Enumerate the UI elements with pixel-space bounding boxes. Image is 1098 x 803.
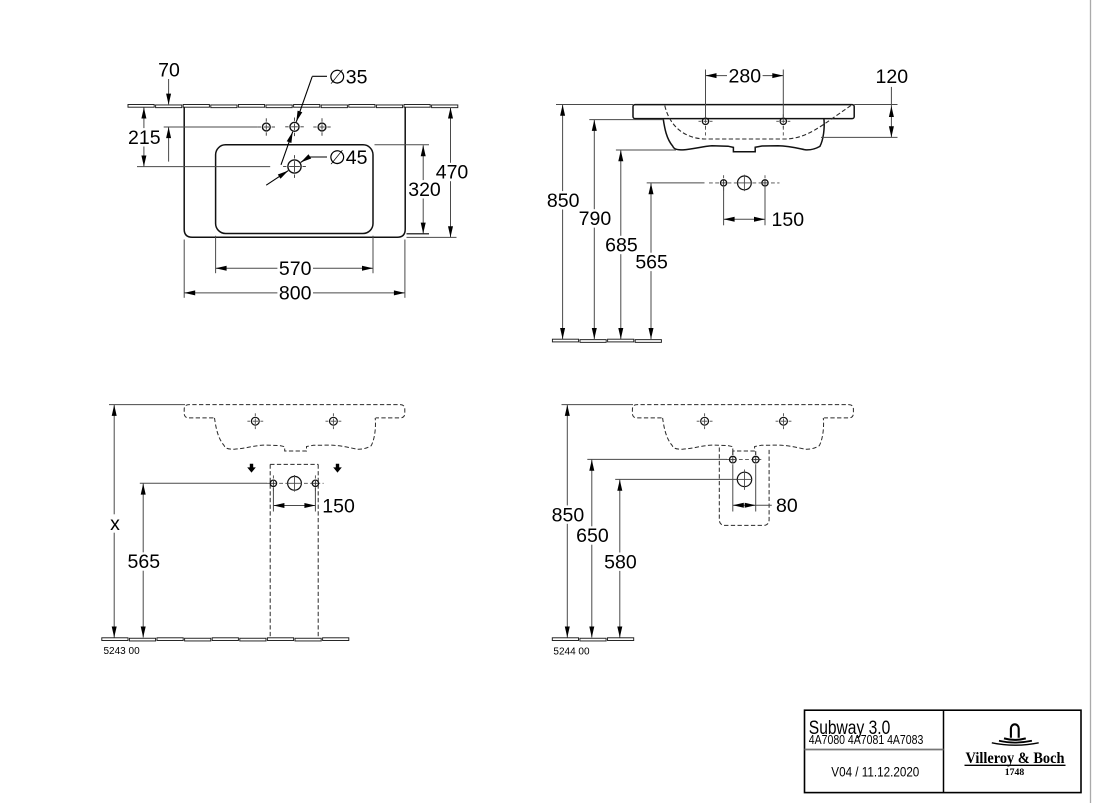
leader line dia35 [281,76,327,165]
hidden basin body (pedestal view) [663,418,824,451]
svg-text:685: 685 [605,235,638,257]
dimension 850 (pedestal view) [550,405,586,638]
dimension 650 [575,459,611,637]
label dia35 [329,67,368,89]
svg-text:x: x [110,513,120,535]
extension line 565 [647,182,705,184]
fixing hole right (pedestal view) [776,413,792,429]
fixing hole right (front) [776,114,790,135]
dimension 80 [733,464,798,517]
dimension 565 (wall view) [126,483,162,637]
dimension 470 [434,108,470,238]
dimension 790 [577,120,613,339]
dimension 215 [127,108,163,167]
tap zone hidden rectangle [270,464,318,637]
extension lines 800 [184,240,405,298]
dimension 800 [184,283,405,305]
basin outer outline (plan) [184,107,405,237]
svg-text:5244 00: 5244 00 [553,646,590,657]
svg-text:280: 280 [729,65,762,87]
drain center circle (wall view) [287,475,302,492]
svg-text:Villeroy & Boch: Villeroy & Boch [966,750,1065,767]
svg-text:850: 850 [552,504,585,526]
svg-text:120: 120 [876,66,909,88]
basin inner bowl outline (plan) [216,145,373,234]
fixing hole left (front) [699,114,713,135]
svg-text:V04 / 11.12.2020: V04 / 11.12.2020 [831,764,919,779]
svg-text:150: 150 [772,209,805,231]
dimension x [107,405,123,638]
anchor hole left (front) [721,175,727,190]
svg-text:850: 850 [547,190,580,212]
faucet holes centerline [164,126,258,128]
dimension 120 [876,66,909,137]
hidden bowl curve [665,106,851,139]
mount arrow left [247,464,256,473]
basin slab outline (front) [633,105,854,119]
logo fountain arch [1011,724,1019,738]
product number 5244 00 [553,646,590,657]
hidden basin slab (pedestal view) [632,405,853,418]
fixing hole right (wall view) [326,413,342,429]
extension line top (x dim) [109,404,185,406]
svg-text:800: 800 [279,283,312,305]
floor line (pedestal view) [552,638,633,641]
drain center circle (front) [737,175,752,191]
fixing hole left (pedestal view) [697,413,713,429]
tap hole right (pedestal) [752,456,759,463]
svg-text:5243 00: 5243 00 [104,646,141,657]
logo ripple 3 [992,743,1039,745]
anchor hole left (wall view) [270,475,276,491]
svg-text:70: 70 [158,59,180,81]
extension line outer bottom [407,236,457,238]
fixing hole left (wall view) [247,413,263,429]
svg-text:470: 470 [436,162,469,184]
dimension 280 [706,65,784,118]
svg-text:580: 580 [604,551,637,573]
dimension 570 [216,258,373,280]
logo ripple 2 [999,741,1032,743]
svg-text:650: 650 [576,525,609,547]
svg-text:80: 80 [776,495,798,517]
svg-text:565: 565 [128,551,161,573]
siphon cover hidden outline [719,448,769,526]
faucet hole left [258,118,275,135]
hidden basin body (wall view) [215,418,376,451]
product number 5243 00 [104,646,141,657]
anchor hole right (wall view) [312,475,318,491]
faucet hole right [313,118,330,135]
extension line top right (120) [854,104,897,106]
product name Subway 3.0 [809,718,891,739]
extension line 650 [587,458,727,460]
tap holes centerline (pedestal) [727,459,764,461]
wall line (plan view) [128,105,458,108]
svg-text:215: 215 [128,127,161,149]
dimension 580 [603,479,639,637]
extension line 120 bottom [821,136,898,138]
dimension 70 [158,59,180,161]
dimension 850 (front) [545,105,581,340]
extension lines 570 [216,236,373,273]
version and date [831,764,919,779]
svg-text:790: 790 [579,208,612,230]
mount arrow right [333,464,342,473]
basin body outline (front) [663,119,824,152]
anchor holes centerline (front) [709,182,780,184]
drain hole (pedestal) [737,470,752,490]
extension line 790 [589,119,663,121]
dimension 150 (front) [724,187,805,231]
overflow hole 45mm [283,155,306,178]
dimension 150 (wall view) [273,487,355,517]
svg-text:150: 150 [322,495,355,517]
svg-text:∅45: ∅45 [329,147,368,169]
extension line top left (850) [556,104,633,106]
title block frame [805,710,1082,792]
extension line through 45mm hole [137,166,270,168]
leader line dia45 [266,154,327,185]
svg-text:1748: 1748 [1005,768,1025,778]
extension line 565 (wall view) [140,482,267,484]
svg-text:570: 570 [279,258,312,280]
faucet hole middle (35mm) [285,118,304,137]
extension line inner bottom [407,233,430,235]
article numbers [809,732,924,747]
svg-text:565: 565 [635,252,668,274]
svg-text:∅35: ∅35 [329,67,368,89]
extension line inner top [375,144,430,146]
extension line top (850) [562,404,634,406]
logo year 1748 [1005,768,1025,778]
extension line 685 [616,149,676,151]
dimension 320 [407,145,443,233]
floor line (wall view) [102,638,349,641]
floor line (front view) [552,339,661,342]
svg-text:4A7080 4A7081 4A7083: 4A7080 4A7081 4A7083 [809,732,924,747]
anchor hole right (front) [762,175,768,190]
logo wordmark Villeroy & Boch [965,750,1066,767]
dimension 565 (front) [634,183,670,339]
extension line 580 [615,478,737,480]
tap hole left (pedestal) [730,456,737,463]
logo ripple 1 [1004,738,1026,740]
notch to tap hole connectors [733,451,756,455]
anchor holes centerline (wall view) [267,482,324,484]
label dia45 [329,147,368,169]
hidden basin slab (wall view) [184,405,405,418]
window edge line [1090,0,1092,803]
dimension 685 [604,150,640,339]
